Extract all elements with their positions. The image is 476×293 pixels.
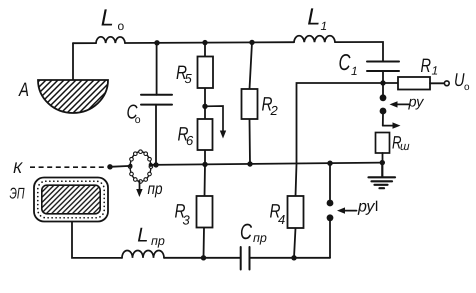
svg-text:1: 1 <box>351 64 358 78</box>
arrow Rsh variable <box>383 122 401 128</box>
node C1-bottom <box>380 80 385 85</box>
arrow PYI pointer <box>337 207 357 213</box>
switch PYI (РУI) <box>327 163 334 258</box>
wire bottom bus <box>72 222 330 258</box>
switch PY (РУ) <box>380 83 387 126</box>
node top-R5 <box>202 40 207 45</box>
capacitor C0 <box>141 43 172 165</box>
label R4 <box>270 201 286 228</box>
label Lpr <box>137 225 165 248</box>
label R2 <box>262 94 279 118</box>
label R3 <box>175 201 191 228</box>
svg-text:ру: ру <box>408 95 425 111</box>
svg-text:ру: ру <box>357 199 375 216</box>
svg-text:1: 1 <box>432 64 439 78</box>
resistor Rsh <box>376 133 390 163</box>
svg-text:К: К <box>13 160 23 177</box>
label Rsh <box>392 132 410 153</box>
svg-text:L: L <box>137 225 148 247</box>
label R6 <box>178 123 195 148</box>
resistor R4 <box>288 196 304 258</box>
svg-text:C: C <box>339 49 351 75</box>
svg-text:ЭП: ЭП <box>10 186 26 203</box>
node mid-PYI <box>327 161 332 166</box>
node bottom-R4 <box>291 255 296 260</box>
wire top bus <box>73 42 383 62</box>
tap arrow <box>205 106 226 139</box>
node mid-C0 <box>153 162 158 167</box>
resistor R2 <box>242 42 258 164</box>
node pr-right <box>149 163 153 167</box>
svg-text:o: o <box>118 19 125 33</box>
wire C1 to R1 <box>383 82 398 84</box>
resistor R5 <box>198 43 214 106</box>
resistor R1 <box>398 77 444 90</box>
label C1 <box>339 49 358 78</box>
svg-text:R: R <box>421 55 432 77</box>
node R5-R6 tap <box>202 104 207 109</box>
label U0 <box>454 69 470 93</box>
svg-text:3: 3 <box>183 213 191 228</box>
inductor Lpr <box>122 250 164 257</box>
label R1 <box>421 55 439 78</box>
capacitor C1 <box>367 62 399 84</box>
label L1 <box>307 4 327 33</box>
svg-text:пр: пр <box>151 234 165 248</box>
node bottom-R3 <box>201 255 206 260</box>
svg-text:пр: пр <box>148 181 163 198</box>
electro-player EP box <box>34 178 108 222</box>
node top-R2 <box>249 40 254 45</box>
arrow pr <box>136 182 142 198</box>
label L0 <box>101 5 125 34</box>
label PYI <box>357 198 379 216</box>
transducer pr circle <box>128 150 152 183</box>
label C0 <box>127 101 141 126</box>
svg-text:L: L <box>101 5 114 31</box>
node mid-R6R3 <box>202 162 207 167</box>
arrow PY pointer <box>390 101 410 107</box>
label R5 <box>176 62 193 86</box>
resistor R3 <box>197 164 213 257</box>
svg-text:6: 6 <box>186 133 194 148</box>
svg-text:2: 2 <box>270 103 279 118</box>
svg-text:5: 5 <box>185 71 193 86</box>
svg-text:o: o <box>464 82 470 93</box>
wire antenna lead <box>72 43 74 79</box>
inductor L0 <box>96 37 125 43</box>
svg-text:ш: ш <box>400 141 410 153</box>
resistor R6 <box>198 106 213 164</box>
inductor L1 <box>294 36 335 42</box>
svg-text:1: 1 <box>321 19 328 33</box>
capacitor Cpr <box>241 247 250 270</box>
wire C1 to R4 column <box>296 83 384 196</box>
antenna A <box>38 80 108 113</box>
svg-text:C: C <box>240 219 252 244</box>
wire mid bus <box>110 163 382 167</box>
svg-text:L: L <box>307 4 320 30</box>
node mid-R2 <box>247 161 252 166</box>
node pr-left <box>128 164 132 168</box>
node Rsh-ground <box>380 160 385 165</box>
svg-text:A: A <box>18 79 29 101</box>
terminal U0 <box>444 81 449 86</box>
node K-dash end <box>107 164 112 169</box>
svg-text:пр: пр <box>253 231 267 245</box>
ground <box>369 163 396 189</box>
svg-text:4: 4 <box>278 212 285 227</box>
svg-text:I: I <box>375 198 379 215</box>
label Cpr <box>240 219 267 245</box>
dashed line K <box>30 166 108 168</box>
svg-text:o: o <box>135 114 141 126</box>
node top-C0 <box>154 40 159 45</box>
